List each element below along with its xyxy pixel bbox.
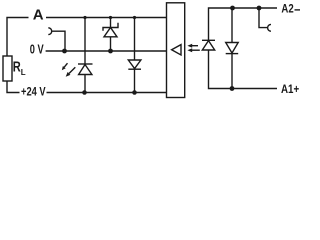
- wire branch diode lower: [134, 69, 136, 92]
- connector socket left (plug symbol): [48, 28, 51, 35]
- diode triangle: [128, 60, 141, 69]
- opto arrow 2 head: [187, 48, 192, 52]
- Z-diode cathode bar with ticks: [103, 23, 118, 31]
- opto arrow 1 head: [187, 44, 192, 48]
- node 0V junction 2: [108, 49, 113, 54]
- wire branch LED upper: [84, 18, 86, 65]
- wire LED to A1+ rail and rail: [209, 50, 278, 89]
- connector socket right (plug symbol): [268, 24, 271, 31]
- protection diode cathode bar: [226, 53, 239, 55]
- svg-text:L: L: [21, 68, 26, 77]
- optocoupler LED triangle: [202, 41, 214, 50]
- amplifier box: [167, 3, 185, 98]
- signal direction triangle: [172, 45, 181, 55]
- wire protection diode branch bottom: [231, 54, 233, 89]
- wire protection diode branch top: [231, 8, 233, 43]
- wire +24V rail to box: [47, 92, 167, 94]
- LED arrow 2 shaft: [69, 67, 75, 73]
- opto arrow 2 shaft: [191, 49, 200, 51]
- opto arrow 1 shaft: [191, 45, 198, 47]
- node A rail junction 3: [133, 16, 136, 19]
- optocoupler LED cathode bar: [202, 39, 215, 41]
- node +24V junction 1: [82, 90, 87, 95]
- LED arrow 2 head: [66, 72, 71, 77]
- wire branch LED lower: [84, 75, 86, 93]
- wire branch diode upper: [134, 18, 136, 61]
- node 0V junction 1: [62, 49, 67, 54]
- wire A rail to box: [46, 17, 166, 19]
- node A2 junction 2: [257, 6, 262, 11]
- wire A2- rail with corner down to optocoupler LED: [209, 8, 278, 40]
- node A2 junction 1: [230, 6, 235, 11]
- minus dash after A2: [295, 9, 301, 11]
- wire 0V rail to box: [46, 50, 166, 52]
- svg-text:+24 V: +24 V: [21, 84, 46, 98]
- svg-text:A1+: A1+: [281, 82, 299, 96]
- wire A terminal left stub and corner down to RL: [7, 18, 29, 57]
- node A rail junction 1: [83, 16, 86, 19]
- node A rail junction 2: [109, 16, 112, 19]
- node +24V junction 2: [132, 90, 137, 95]
- LED arrow 1 head: [62, 66, 66, 70]
- Z-diode triangle: [104, 28, 117, 37]
- LED indicator diode triangle: [79, 65, 92, 75]
- LED indicator diode cathode bar: [78, 63, 93, 65]
- LED arrow 1 shaft: [64, 63, 67, 67]
- diode cathode bar: [128, 68, 141, 70]
- resistor RL: [3, 56, 12, 81]
- protection diode triangle: [226, 43, 239, 54]
- wire branch Z-diode lower: [110, 37, 112, 51]
- svg-text:A2: A2: [281, 2, 294, 16]
- svg-text:A: A: [33, 7, 44, 24]
- wire RL bottom to +24V corner: [7, 81, 20, 93]
- wire socket to 0V junction: [52, 31, 65, 51]
- wire to connector socket right: [259, 8, 268, 28]
- node A1 junction: [230, 86, 235, 91]
- wire branch Z-diode upper: [110, 18, 112, 28]
- svg-text:0 V: 0 V: [30, 43, 44, 57]
